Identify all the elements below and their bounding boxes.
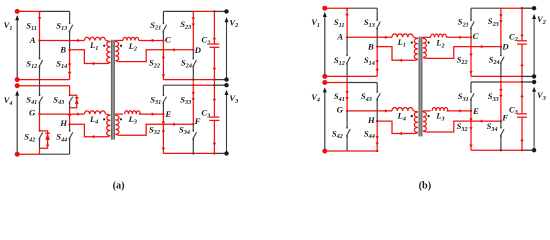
voltage source V2 [533, 16, 535, 76]
switch S21 (open) [162, 11, 164, 23]
wire top rail conv4 (red) [17, 85, 69, 87]
switch S42 (open) [39, 114, 41, 131]
node H [376, 120, 378, 122]
terminal dot V1 + [322, 6, 327, 11]
wire top rail conv4 [325, 82, 347, 84]
svg-text:F: F [501, 113, 508, 123]
wire T2 secondary bottom to F [426, 121, 501, 132]
transformer T2 secondary winding [423, 112, 426, 131]
junction between rails at C2/C1 leads [213, 80, 215, 86]
polarity dot T1 primary [411, 41, 413, 43]
polarity dot T2 secondary [428, 115, 430, 117]
switch S24 (open) [192, 50, 194, 59]
switch S31 (open) [162, 85, 164, 95]
node H [68, 123, 70, 125]
wire bottom rail conv2 [471, 75, 522, 77]
node E [470, 110, 472, 112]
capacitor C3 [521, 82, 523, 114]
wire bottom rail conv3 [163, 152, 214, 154]
wire top rail conv1 (dark segment) [347, 7, 377, 9]
node F [500, 120, 502, 122]
capacitor C2 [213, 11, 215, 44]
wire top rail conv1 (dark segment) [40, 10, 70, 12]
terminal dot V4 - [15, 152, 20, 157]
switch S32 (closed) [470, 111, 472, 150]
node A [38, 39, 40, 41]
terminal dot V4 - [322, 149, 327, 154]
polarity dot T2 primary [103, 118, 105, 120]
svg-text:C: C [165, 34, 171, 44]
svg-text:F: F [194, 116, 201, 126]
panel (a) circuit [4, 9, 239, 157]
transformer core [111, 40, 115, 140]
svg-text:A: A [29, 35, 36, 45]
svg-text:(b): (b) [419, 180, 432, 191]
transformer T2 primary winding [107, 115, 111, 135]
switch S24 (open) [500, 47, 502, 56]
switch S31 (open) [470, 82, 472, 92]
node G [346, 110, 348, 112]
wire T2 secondary top [115, 113, 123, 115]
polarity dot T1 secondary [120, 45, 122, 47]
inductor L2 [431, 34, 447, 37]
node G [38, 113, 40, 115]
voltage source V4 [16, 93, 18, 154]
node C [470, 36, 472, 38]
voltage source V1 [16, 18, 18, 80]
wire bottom rail conv2 [163, 79, 214, 81]
wire A to L1 [347, 36, 392, 38]
wire L3 to E [446, 110, 471, 112]
switch S34 (open) [192, 124, 194, 131]
wire bottom rail conv4 [17, 153, 39, 155]
switch S13 (open) [376, 8, 378, 20]
junction between rails at S23/S33 leg [500, 76, 502, 82]
switch S44 (closed) [376, 121, 378, 151]
switch S14 (closed) [69, 50, 71, 80]
node B [376, 45, 378, 47]
switch S23 (closed) [192, 11, 194, 49]
junction between rails at S23/S33 leg [192, 80, 194, 86]
polarity dot T1 primary [103, 45, 105, 47]
inductor L4 [84, 111, 105, 114]
wire top rail conv1 (red segment) [325, 7, 347, 9]
terminal dot V4 + [15, 83, 20, 88]
diode of S42 (conducting) [40, 131, 48, 148]
switch S22 (closed) [162, 41, 164, 80]
svg-text:E: E [164, 109, 171, 119]
svg-text:E: E [472, 106, 479, 116]
wire B to transformer T1 primary bottom [377, 47, 415, 61]
wire top rail conv1 (red segment) [17, 10, 39, 12]
switch S14 (closed) [376, 47, 378, 77]
node E [162, 113, 164, 115]
node D [500, 45, 502, 47]
switch S12 (open) [346, 37, 348, 55]
wire L2 to C [446, 36, 471, 38]
switch S34 (open) [500, 121, 502, 128]
node A [346, 36, 348, 38]
wire top rail conv3 [163, 84, 193, 86]
inductor L1 [392, 34, 413, 37]
diode of S43 (conducting) [70, 95, 77, 108]
wire H to transformer T2 primary bottom [70, 124, 108, 136]
svg-text:C: C [473, 31, 479, 41]
switch S32 (closed) [162, 114, 164, 153]
transformer T1 primary winding [107, 42, 111, 63]
svg-text:G: G [29, 108, 36, 118]
node B [68, 49, 70, 51]
voltage source V3 [226, 92, 228, 153]
wire L3 to E [139, 113, 164, 115]
wire bottom rail conv3 [471, 149, 522, 151]
capacitor C3 [213, 85, 215, 117]
wire bottom rail conv1 [325, 75, 377, 77]
wire top rail conv2 [471, 7, 501, 9]
switch S41 (open) [39, 86, 41, 96]
wire H to diode junction [69, 108, 71, 125]
svg-text:B: B [59, 45, 66, 55]
svg-text:G: G [337, 104, 344, 114]
node D [192, 49, 194, 51]
wire T1 secondary top [423, 36, 431, 38]
inductor L3 [125, 111, 141, 114]
wire bottom rail conv4 [325, 150, 377, 152]
svg-text:B: B [367, 41, 374, 51]
switch S33 (closed) [192, 85, 194, 124]
terminal dot V4 + [322, 80, 327, 85]
terminal dot V1 + [15, 9, 20, 14]
voltage source V2 [226, 20, 228, 80]
switch S42 (open) [346, 111, 348, 128]
switch S13 (open) [69, 11, 71, 23]
svg-text:H: H [367, 115, 376, 125]
svg-text:H: H [59, 118, 68, 128]
switch S43 (open) [69, 86, 71, 96]
switch S33 (closed) [500, 82, 502, 121]
node C [162, 39, 164, 41]
panel (b) circuit [311, 6, 546, 154]
wire T1 secondary top [115, 40, 123, 42]
svg-text:D: D [501, 42, 509, 52]
junction between rails at C2/C1 leads [521, 76, 523, 82]
wire T1 secondary bottom to D [119, 50, 194, 62]
svg-text:(a): (a) [113, 180, 125, 191]
wire top rail conv3 [471, 81, 501, 83]
transformer T2 secondary winding [115, 115, 119, 134]
switch S12 (open) [39, 41, 41, 59]
transformer T1 secondary winding [115, 42, 118, 61]
junction between rails at left leg1 [39, 80, 41, 86]
node F [192, 123, 194, 125]
inductor L3 [432, 108, 448, 111]
wire bottom rail conv1 [17, 79, 69, 81]
wire top rail conv2 [163, 10, 193, 12]
voltage source V1 [324, 14, 326, 76]
svg-text:D: D [194, 45, 202, 55]
switch S43 (open) [376, 83, 378, 93]
polarity dot T1 secondary [428, 41, 430, 43]
terminal dot V1 - [322, 74, 327, 79]
transformer T1 primary winding [414, 38, 418, 59]
polarity dot T2 secondary [120, 118, 122, 120]
wire T1 secondary bottom to D [426, 47, 501, 59]
wire H to transformer T2 primary bottom [377, 121, 415, 133]
wire A to L1 [40, 40, 85, 42]
wire G to L4 [347, 110, 392, 112]
junction between rails at left leg1 [346, 76, 348, 82]
voltage source V3 [533, 89, 535, 150]
inductor L2 [123, 37, 139, 40]
switch S22 (closed) [470, 37, 472, 76]
transformer T1 secondary winding [423, 38, 426, 57]
switch S11 (closed) [346, 8, 348, 37]
wire T2 secondary top [423, 110, 431, 112]
inductor L4 [392, 108, 413, 111]
wire B to transformer T1 primary bottom [70, 50, 108, 64]
switch S41 (closed) [346, 83, 348, 111]
transformer core [419, 37, 423, 137]
wire L2 to C [139, 40, 164, 42]
svg-text:A: A [336, 32, 343, 42]
voltage source V4 [324, 90, 326, 151]
inductor L1 [84, 37, 105, 40]
transformer T2 primary winding [414, 112, 418, 132]
polarity dot T2 primary [411, 115, 413, 117]
switch S11 (closed) [39, 11, 41, 40]
switch S21 (open) [470, 8, 472, 20]
terminal dot V1 - [15, 77, 20, 82]
wire T2 secondary bottom to F [119, 124, 194, 135]
capacitor C2 [521, 8, 523, 41]
wire G to L4 [40, 113, 85, 115]
switch S44 (open) [69, 124, 71, 131]
switch S23 (closed) [500, 8, 502, 46]
